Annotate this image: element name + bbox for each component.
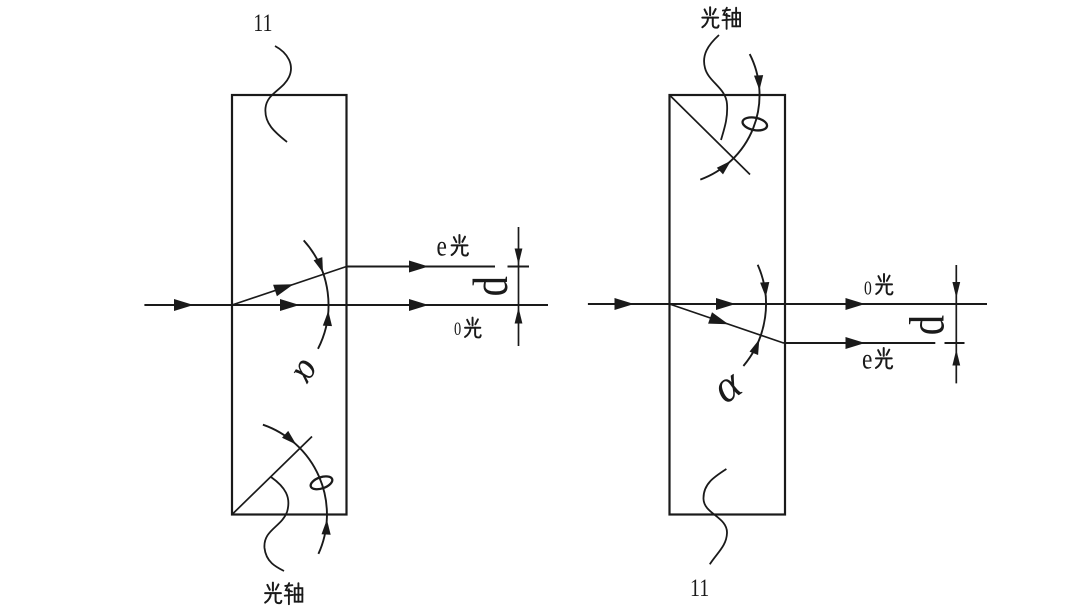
- dimension arrowhead bottom (right): [952, 350, 960, 366]
- e-ray horizontal after crystal (right): [784, 342, 936, 344]
- Guang character of Guang-Zhou label (right): [702, 7, 718, 27]
- leader squiggle from 11 to crystal (right): [703, 469, 727, 564]
- angle alpha arc (right): [743, 265, 766, 366]
- o-ray horizontal (right): [670, 303, 988, 305]
- Guang character of e-ray label (right): [876, 348, 892, 368]
- arrowhead alpha arc at o-ray (right): [760, 282, 769, 297]
- incident ray (right): [588, 303, 670, 305]
- leader squiggle from Guang-Zhou label to optical axis (left): [264, 477, 288, 571]
- label e-ray 'e Guang' (right): [862, 342, 872, 375]
- arrowhead theta arc on optical axis (right): [717, 161, 731, 175]
- arrowhead o-ray inside crystal (right): [716, 298, 736, 310]
- optical axis direction line (left): [232, 437, 312, 515]
- svg-text:11: 11: [690, 574, 709, 602]
- theta symbol ellipse (right): [741, 115, 768, 132]
- e-ray refracted diagonal (left): [232, 267, 347, 306]
- dimension arrowhead top (right): [952, 282, 960, 298]
- reference numeral 11 (left, top): [253, 9, 272, 37]
- angle alpha arc (left): [304, 240, 329, 348]
- label o-ray 'o Guang' (left): [454, 318, 461, 339]
- dimension arrowhead bottom (left): [515, 308, 523, 324]
- arrowhead o-ray inside crystal (left): [280, 299, 300, 311]
- label o-ray 'o Guang' (right): [864, 277, 872, 299]
- e-ray refracted diagonal (right): [670, 304, 784, 343]
- Zhou character of Guang-Zhou label (right): [722, 8, 740, 29]
- svg-text:e: e: [437, 229, 447, 262]
- leader squiggle from Guang-Zhou label to optical axis (right): [704, 35, 727, 140]
- angle theta arc (left): [263, 425, 327, 554]
- o-ray horizontal (left): [232, 304, 548, 306]
- e-ray horizontal after crystal (left): [347, 266, 496, 268]
- angle theta arc (right): [700, 54, 759, 180]
- svg-text:0: 0: [454, 318, 461, 339]
- Guang character of o-ray label (right): [876, 274, 892, 294]
- arrowhead e-ray diagonal (right): [708, 312, 728, 324]
- label d (left): [462, 276, 518, 296]
- Guang character of Guang-Zhou label (left): [265, 583, 281, 603]
- dimension arrowhead top (left): [515, 249, 523, 265]
- svg-text:d: d: [898, 315, 954, 335]
- arrowhead theta arc at crystal bottom face (left): [322, 520, 331, 535]
- optical axis direction line (right): [670, 95, 751, 175]
- theta symbol ellipse (left): [309, 474, 334, 492]
- arrowhead alpha arc at e-ray (right): [750, 339, 760, 355]
- dimension line d (right): [955, 265, 957, 383]
- arrowhead incident ray (left): [174, 299, 194, 311]
- incident ray (left): [144, 304, 232, 306]
- dimension tick at e-ray level (right): [945, 342, 965, 344]
- arrowhead e-ray diagonal (left): [273, 284, 293, 296]
- crystal slab 11 (left figure): [232, 95, 347, 515]
- arrowhead e-ray horizontal (right): [846, 337, 866, 349]
- label d (right): [898, 315, 954, 335]
- svg-text:e: e: [862, 342, 872, 375]
- dimension line d (left): [518, 227, 520, 346]
- Guang character of e-ray label (left): [452, 235, 468, 256]
- label alpha (left): [284, 353, 331, 393]
- arrowhead alpha arc at o-ray (left): [323, 311, 332, 326]
- svg-text:0: 0: [864, 277, 872, 299]
- arrowhead o-ray outside crystal (left): [409, 299, 429, 311]
- arrowhead theta arc at crystal top face (right): [754, 75, 763, 90]
- leader squiggle from 11 to crystal (left): [265, 46, 291, 142]
- Zhou character of Guang-Zhou label (left): [285, 583, 303, 604]
- dimension tick at e-ray level (left): [508, 266, 530, 268]
- arrowhead theta arc on optical axis (left): [282, 431, 296, 445]
- svg-text:11: 11: [253, 9, 272, 37]
- svg-text:d: d: [462, 276, 518, 296]
- label e-ray 'e Guang' (left): [437, 229, 447, 262]
- reference numeral 11 (right, bottom): [690, 574, 709, 602]
- arrowhead incident ray (right): [615, 298, 635, 310]
- svg-text:α: α: [284, 353, 331, 393]
- Guang character of o-ray label (left): [465, 318, 481, 338]
- label alpha (right): [702, 357, 751, 412]
- arrowhead o-ray outside crystal (right): [846, 298, 866, 310]
- arrowhead alpha arc at e-ray (left): [314, 257, 323, 273]
- arrowhead e-ray horizontal (left): [409, 261, 429, 273]
- crystal slab 11 (right figure): [670, 95, 786, 515]
